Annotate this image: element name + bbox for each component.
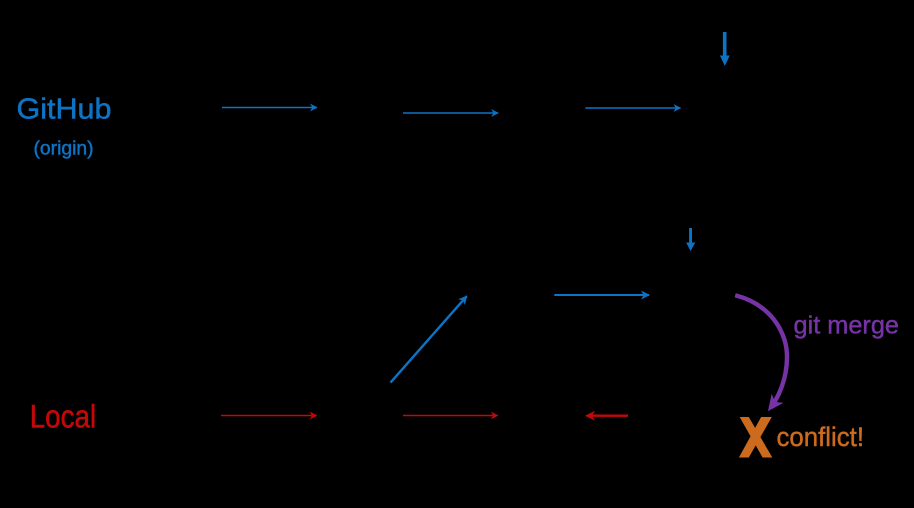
arrow: push down arrow (top) — [720, 32, 730, 66]
wire: middle row blue arrow — [554, 294, 649, 296]
arrow: git merge purple curve — [735, 295, 787, 408]
wire: github row arrow 2 — [403, 112, 498, 114]
arrow: fetch down arrow (middle) — [686, 228, 695, 251]
svg-text:Local: Local — [30, 399, 97, 435]
wire: github row arrow 3 — [585, 107, 680, 109]
wire: github row arrow 1 — [222, 107, 317, 109]
wire: local row leftward arrow — [587, 415, 628, 417]
svg-text:conflict!: conflict! — [777, 422, 865, 452]
wire: local row arrow 1 — [221, 415, 317, 417]
wire: local row arrow 2 — [403, 415, 498, 417]
icon: conflict X — [739, 417, 772, 458]
svg-text:git merge: git merge — [794, 312, 900, 340]
wire: diagonal blue arrow — [391, 296, 467, 382]
svg-text:GitHub: GitHub — [17, 94, 112, 126]
svg-text:(origin): (origin) — [34, 139, 94, 160]
